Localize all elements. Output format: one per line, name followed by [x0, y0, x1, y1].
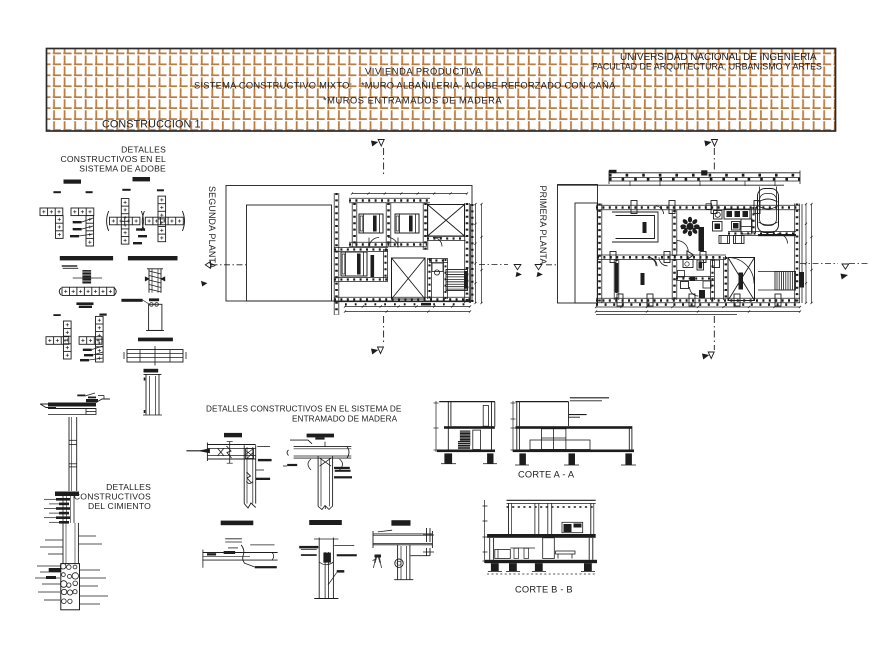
svg-text:*MUROS ENTRAMADOS DE MADERA: *MUROS ENTRAMADOS DE MADERA: [323, 96, 502, 106]
madera detail 4 post base: [299, 520, 357, 599]
primera planta top dimension band: [609, 170, 800, 186]
segunda planta bedroom bed 1: [359, 214, 383, 233]
adobe detail reinforced joint: [73, 270, 102, 283]
madera detail 3 sill junction: [202, 521, 277, 569]
corte A-A label: [518, 470, 575, 480]
adobe beam bar: [138, 338, 173, 342]
primera planta top axis marker: [705, 140, 718, 171]
primera planta left axis marker: [535, 265, 557, 277]
adobe detail T junction: [70, 208, 94, 246]
primera planta bar wall black: [681, 227, 704, 251]
segunda planta roof outline inner: [247, 205, 332, 301]
adobe bars mid right: [121, 298, 159, 304]
corte B-B footings: [487, 563, 596, 574]
adobe detail wall plan strip: [59, 287, 116, 295]
adobe detail name bars row1: [53, 177, 163, 193]
cimiento wall elevation: [69, 417, 77, 491]
segunda planta double height void X top: [428, 205, 465, 237]
primera planta right axis line: [800, 264, 868, 279]
primera planta room1 door bar: [643, 222, 647, 233]
adobe detail bond beam plan: [124, 346, 186, 366]
corte B-B ground slab: [485, 560, 597, 563]
madera detail 5 tee with bolt: [373, 520, 433, 580]
title block frame with brick hatch: [47, 49, 836, 132]
svg-text:CONSTRUCTIVOS EN EL: CONSTRUCTIVOS EN EL: [60, 154, 166, 164]
madera details title: [206, 405, 402, 424]
adobe detail corner L: [40, 208, 63, 238]
segunda planta doors: [369, 238, 442, 248]
corte B-B mid slab: [487, 534, 596, 538]
svg-text:CONSTRUCCION 1: CONSTRUCCION 1: [102, 119, 201, 131]
adobe bars below strip: [76, 302, 93, 308]
svg-text:SISTEMA DE ADOBE: SISTEMA DE ADOBE: [79, 164, 166, 174]
primera planta wall columns: [610, 201, 781, 307]
svg-text:SEGUNDA PLANTA: SEGUNDA PLANTA: [207, 186, 217, 269]
primera planta void X box: [724, 257, 755, 301]
segunda planta bedroom bed 3: [341, 252, 374, 277]
svg-text:CONSTRUCTIVOS: CONSTRUCTIVOS: [74, 492, 151, 502]
madera detail 1 corner junction: [186, 433, 271, 508]
primera planta garage car: [558, 185, 785, 232]
corte B-B left ticks: [483, 500, 488, 563]
corte B-B lower floor: [490, 538, 593, 560]
adobe detail cross 1: [107, 199, 144, 245]
segunda planta bedroom bed 2: [395, 214, 419, 233]
primera planta right dimension strip: [802, 203, 813, 304]
cimiento foundation stones: [60, 563, 79, 609]
segunda planta bottom axis marker: [372, 316, 384, 354]
adobe detail vertical post with mesh: [145, 269, 165, 293]
segunda planta roof outline outer: [226, 186, 472, 302]
adobe detail T cross row3 b: [79, 316, 103, 362]
adobe small bars row3: [53, 314, 106, 317]
primera planta patio outline inner: [575, 203, 598, 303]
corte A-A right section: [511, 398, 637, 465]
adobe section bars row2: [60, 256, 178, 260]
cimiento leader lines: [35, 536, 108, 604]
segunda planta floor plan walls: [334, 192, 470, 315]
corte B-B label: [515, 585, 573, 595]
primera planta bedroom2 bar: [641, 273, 645, 285]
primera planta bathroom fixtures: [678, 260, 720, 299]
adobe detail cross 2: [133, 196, 185, 244]
segunda planta bottom dimension lines: [344, 304, 471, 312]
segunda planta left axis marker: [202, 262, 247, 286]
corte B-B upper floor: [507, 500, 596, 534]
primera planta label: [538, 186, 548, 265]
svg-text:DEL CIMIENTO: DEL CIMIENTO: [88, 501, 151, 511]
svg-text:DETALLES: DETALLES: [121, 145, 166, 155]
primera planta exterior walls: [596, 204, 800, 304]
primera planta stairs: [758, 272, 804, 291]
svg-text:SISTEMA CONSTRUCTIVO MIXTO:: SISTEMA CONSTRUCTIVO MIXTO: *MURO ALBAÑI…: [194, 81, 616, 91]
segunda planta right axis line: [479, 265, 521, 277]
svg-text:ENTRAMADO DE MADERA: ENTRAMADO DE MADERA: [292, 415, 398, 424]
svg-text:CORTE B - B: CORTE B - B: [515, 585, 573, 595]
corte A-A left section: [434, 401, 498, 464]
corner elevation small marks left of corte: [423, 528, 434, 556]
adobe detail lintel lines: [62, 266, 78, 268]
segunda planta right dimension strip: [471, 203, 483, 304]
adobe details title: [60, 145, 166, 174]
svg-text:DETALLES: DETALLES: [106, 482, 151, 492]
adobe detail buttress elevation: [146, 303, 164, 331]
svg-text:CORTE A - A: CORTE A - A: [518, 470, 575, 480]
primera planta interior partitions: [614, 204, 796, 300]
primera planta patio outline outer: [558, 185, 598, 304]
segunda planta double height void X bottom: [392, 258, 426, 299]
svg-text:VIVIENDA PRODUCTIVA: VIVIENDA PRODUCTIVA: [365, 67, 482, 77]
primera planta bottom axis marker: [703, 316, 715, 359]
svg-text:FACULTAD DE ARQUITECTURA, URBA: FACULTAD DE ARQUITECTURA, URBANISMO Y AR…: [592, 62, 822, 72]
cimiento sobrecimiento hatched: [44, 492, 79, 524]
primera planta closet room1: [612, 212, 658, 242]
primera planta kitchen counters: [713, 209, 753, 244]
adobe bar above post: [144, 369, 159, 373]
primera planta doors arcs: [648, 206, 788, 296]
svg-text:DETALLES CONSTRUCTIVOS EN EL S: DETALLES CONSTRUCTIVOS EN EL SISTEMA DE: [206, 405, 402, 414]
cimiento roof eave detail: [40, 396, 110, 415]
primera planta entrance door leaf: [687, 251, 694, 260]
segunda planta wc fixtures: [432, 263, 443, 275]
svg-text:PRIMERA PLANTA: PRIMERA PLANTA: [538, 186, 548, 265]
adobe tiny marks bottom: [77, 393, 96, 398]
segunda planta stairs: [446, 270, 468, 291]
cimiento title: [74, 482, 151, 511]
adobe detail T cross row3 a: [46, 321, 71, 359]
adobe detail corner post elevation: [143, 374, 162, 415]
segunda planta top axis marker: [372, 140, 385, 178]
cimiento wall shaft lower: [63, 523, 78, 564]
madera detail 2 tee junction: [281, 434, 352, 510]
primera planta dining table flower: [680, 217, 699, 236]
primera planta bottom dimension lines: [595, 305, 801, 315]
segunda planta label: [207, 186, 217, 269]
